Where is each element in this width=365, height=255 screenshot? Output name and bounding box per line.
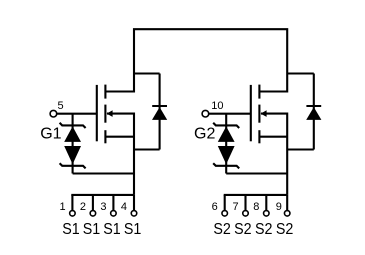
diode D1 triangle (cathode up) — [152, 107, 167, 120]
svg-text:6: 6 — [212, 201, 218, 213]
zener Z2b triangle (cathode down) — [218, 146, 235, 164]
wire: D2 anode connector to source net — [287, 148, 314, 150]
zener Z1b triangle (cathode down) — [64, 146, 81, 164]
mosfet Q2 source channel bar — [258, 130, 260, 143]
mosfet Q2 drain channel bar — [258, 85, 260, 99]
mosfet Q1 gate line — [96, 85, 98, 141]
wire: gate G1 lead from pin 5 — [57, 113, 97, 115]
svg-text:3: 3 — [100, 201, 106, 213]
terminal pin 2 circle — [90, 211, 96, 217]
wire: top drain bus connecting D1 and D2 drains — [134, 28, 287, 92]
wire: pin 1 stub — [71, 195, 73, 211]
svg-text:S2: S2 — [255, 221, 273, 238]
zener Z1a triangle (cathode up) — [64, 126, 81, 141]
wire: pin 9 stub — [286, 195, 288, 211]
zener Z2a cathode bar (bent ends) — [213, 123, 239, 128]
zener Z1a cathode bar (bent ends) — [60, 123, 86, 128]
mosfet Q1 drain channel bar — [104, 85, 106, 99]
wire: zener return to source net — [73, 172, 134, 174]
svg-text:1: 1 — [59, 201, 65, 213]
mosfet Q2 body arrow — [261, 110, 267, 117]
wire: S2 bottom bus — [224, 194, 288, 196]
terminal pin 8 circle — [264, 211, 270, 217]
diode D1 (body diode) cathode bar and lead — [152, 74, 167, 150]
wire: gate G2 lead from pin 10 — [209, 113, 251, 115]
mosfet Q1 body channel bar — [104, 105, 106, 123]
svg-text:G1: G1 — [40, 126, 61, 143]
terminal pin 3 circle — [111, 211, 117, 217]
wire: zener return to source net — [226, 172, 287, 174]
zener Z2a triangle (cathode up) — [218, 126, 235, 141]
zener Z2b cathode bar (bent ends) — [213, 163, 239, 168]
terminal pin 4 circle — [131, 211, 137, 217]
wire: D1 anode connector to source net — [134, 148, 160, 150]
terminal pin 1 circle — [70, 211, 76, 217]
wire: D2 cathode connector to drain net — [287, 72, 314, 74]
svg-text:4: 4 — [121, 201, 127, 213]
wire: Q2 drain stub — [259, 90, 287, 92]
wire: pin 8 stub — [265, 195, 267, 211]
wire: Q1 body/source wire with junction to source vertical — [105, 114, 134, 195]
svg-text:8: 8 — [253, 201, 259, 213]
svg-text:S1: S1 — [124, 221, 142, 238]
wire: Q1 drain stub — [105, 90, 134, 92]
mosfet Q1 source channel bar — [104, 130, 106, 143]
svg-text:S1: S1 — [62, 221, 80, 238]
diode D2 triangle (cathode up) — [306, 107, 321, 120]
svg-text:S1: S1 — [103, 221, 121, 238]
wire: S1 bottom bus — [71, 194, 134, 196]
terminal pin 7 circle — [243, 211, 249, 217]
terminal pin 5 circle — [50, 110, 57, 117]
svg-text:S2: S2 — [213, 221, 231, 238]
wire: zener Z2 branch vertical — [225, 114, 227, 174]
wire: pin 3 stub — [112, 195, 114, 211]
mosfet Q2 gate line — [250, 85, 252, 141]
svg-text:2: 2 — [80, 201, 86, 213]
wire: pin 6 stub — [224, 195, 226, 211]
terminal pin 9 circle — [284, 211, 290, 217]
zener Z1b cathode bar (bent ends) — [60, 163, 86, 168]
wire: pin 7 stub — [244, 195, 246, 211]
wire: D1 cathode connector to drain net — [134, 72, 160, 74]
wire: pin 2 stub — [92, 195, 94, 211]
wire: Q2 body/source wire with junction to source vertical — [259, 114, 287, 195]
mosfet Q2 body channel bar — [258, 105, 260, 123]
svg-text:S1: S1 — [83, 221, 101, 238]
mosfet Q1 body arrow — [107, 110, 113, 117]
svg-text:10: 10 — [211, 100, 223, 112]
wire: zener Z1 branch vertical — [72, 114, 74, 174]
diode D2 (body diode) cathode bar and lead — [306, 74, 321, 150]
svg-text:7: 7 — [232, 201, 238, 213]
wire: pin 4 stub — [133, 195, 135, 211]
svg-text:S2: S2 — [276, 221, 294, 238]
terminal pin 10 circle — [202, 110, 209, 117]
svg-text:5: 5 — [58, 100, 64, 112]
terminal pin 6 circle — [222, 211, 228, 217]
svg-text:9: 9 — [276, 201, 282, 213]
svg-text:S2: S2 — [234, 221, 252, 238]
svg-text:G2: G2 — [194, 126, 215, 143]
